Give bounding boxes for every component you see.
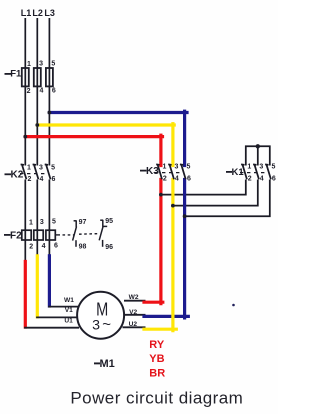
svg-text:5: 5 bbox=[271, 164, 275, 171]
svg-text:Power circuit diagram: Power circuit diagram bbox=[70, 389, 243, 408]
svg-text:U1: U1 bbox=[64, 318, 73, 325]
svg-text:1: 1 bbox=[27, 164, 31, 171]
svg-text:K3: K3 bbox=[146, 166, 159, 177]
svg-text:3: 3 bbox=[39, 164, 43, 171]
svg-text:2: 2 bbox=[29, 243, 33, 250]
svg-text:6: 6 bbox=[54, 243, 58, 250]
svg-text:3: 3 bbox=[92, 318, 100, 334]
svg-text:1: 1 bbox=[162, 164, 166, 171]
svg-text:5: 5 bbox=[51, 60, 55, 67]
svg-text:3: 3 bbox=[174, 164, 178, 171]
svg-text:BR: BR bbox=[149, 367, 165, 379]
svg-text:5: 5 bbox=[51, 164, 55, 171]
svg-text:3: 3 bbox=[40, 219, 44, 226]
svg-text:~: ~ bbox=[102, 316, 111, 333]
svg-text:M1: M1 bbox=[100, 358, 115, 370]
svg-text:L3: L3 bbox=[44, 8, 55, 18]
svg-text:6: 6 bbox=[52, 87, 56, 94]
svg-text:95: 95 bbox=[105, 218, 113, 225]
svg-text:V1: V1 bbox=[65, 307, 73, 314]
svg-text:F1: F1 bbox=[10, 68, 22, 79]
svg-text:YB: YB bbox=[149, 353, 164, 365]
svg-text:W2: W2 bbox=[129, 294, 139, 301]
svg-text:F2: F2 bbox=[10, 231, 22, 242]
svg-text:2: 2 bbox=[27, 176, 31, 183]
svg-text:U2: U2 bbox=[129, 321, 138, 328]
svg-text:2: 2 bbox=[163, 175, 167, 182]
svg-text:RY: RY bbox=[149, 339, 165, 351]
svg-text:1: 1 bbox=[27, 61, 31, 68]
svg-text:6: 6 bbox=[187, 175, 191, 182]
svg-text:6: 6 bbox=[272, 175, 276, 182]
svg-text:97: 97 bbox=[79, 219, 87, 226]
svg-text:3: 3 bbox=[259, 164, 263, 171]
svg-text:L2: L2 bbox=[32, 8, 43, 18]
svg-text:4: 4 bbox=[40, 88, 44, 95]
svg-text:K2: K2 bbox=[11, 170, 24, 181]
svg-text:4: 4 bbox=[39, 176, 43, 183]
svg-text:5: 5 bbox=[52, 219, 56, 226]
svg-text:4: 4 bbox=[175, 175, 179, 182]
svg-text:V2: V2 bbox=[129, 309, 137, 316]
svg-text:96: 96 bbox=[105, 244, 113, 251]
svg-text:K1: K1 bbox=[232, 167, 245, 178]
svg-text:1: 1 bbox=[247, 164, 251, 171]
svg-text:W1: W1 bbox=[64, 297, 74, 304]
svg-text:1: 1 bbox=[29, 219, 33, 226]
svg-text:2: 2 bbox=[27, 88, 31, 95]
svg-text:3: 3 bbox=[39, 61, 43, 68]
svg-text:4: 4 bbox=[42, 243, 46, 250]
svg-text:2: 2 bbox=[248, 175, 252, 182]
svg-text:6: 6 bbox=[52, 176, 56, 183]
svg-text:98: 98 bbox=[79, 244, 87, 251]
svg-text:L1: L1 bbox=[21, 8, 32, 18]
svg-text:4: 4 bbox=[260, 175, 264, 182]
svg-text:5: 5 bbox=[187, 164, 191, 171]
